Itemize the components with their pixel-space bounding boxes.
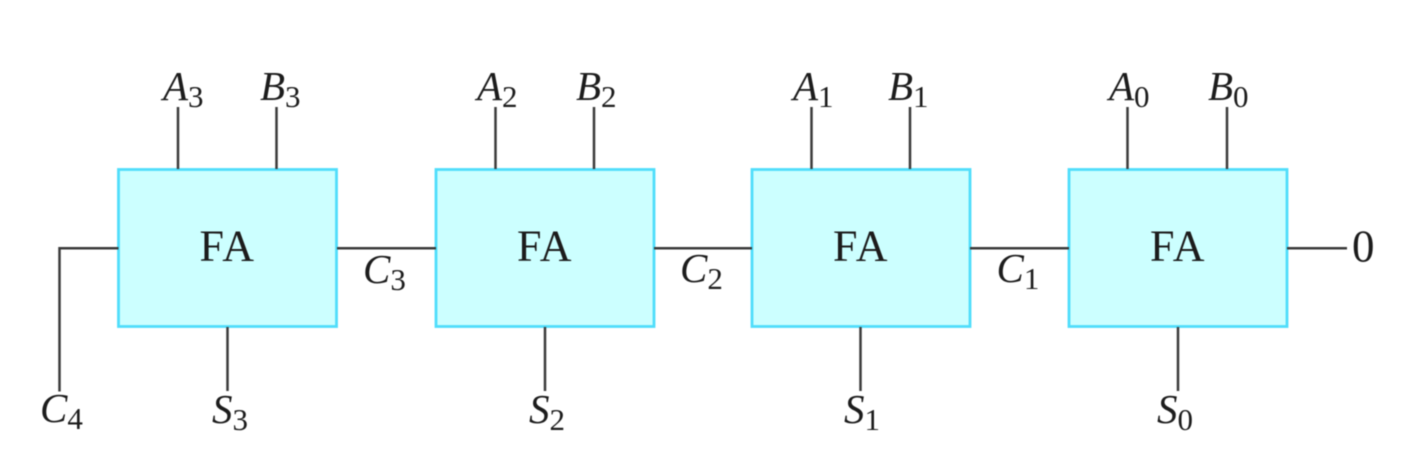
svg-text:B2: B2 (576, 63, 617, 114)
svg-text:FA: FA (517, 222, 573, 271)
svg-text:A0: A0 (1106, 63, 1150, 114)
svg-text:B3: B3 (260, 63, 301, 114)
svg-text:A2: A2 (474, 63, 518, 114)
svg-text:S0: S0 (1157, 386, 1193, 437)
svg-text:C3: C3 (363, 246, 406, 297)
svg-text:C2: C2 (680, 245, 723, 296)
svg-text:S2: S2 (529, 386, 565, 437)
svg-text:A1: A1 (790, 63, 834, 114)
svg-text:B1: B1 (888, 63, 929, 114)
svg-text:C1: C1 (997, 245, 1040, 296)
svg-text:FA: FA (1150, 222, 1206, 271)
svg-text:S3: S3 (212, 386, 248, 437)
svg-text:S1: S1 (844, 386, 880, 437)
svg-text:FA: FA (833, 222, 889, 271)
svg-text:C4: C4 (40, 385, 83, 436)
svg-text:0: 0 (1352, 222, 1375, 272)
svg-text:A3: A3 (160, 63, 204, 114)
svg-text:FA: FA (200, 222, 256, 271)
svg-text:B0: B0 (1208, 63, 1249, 114)
